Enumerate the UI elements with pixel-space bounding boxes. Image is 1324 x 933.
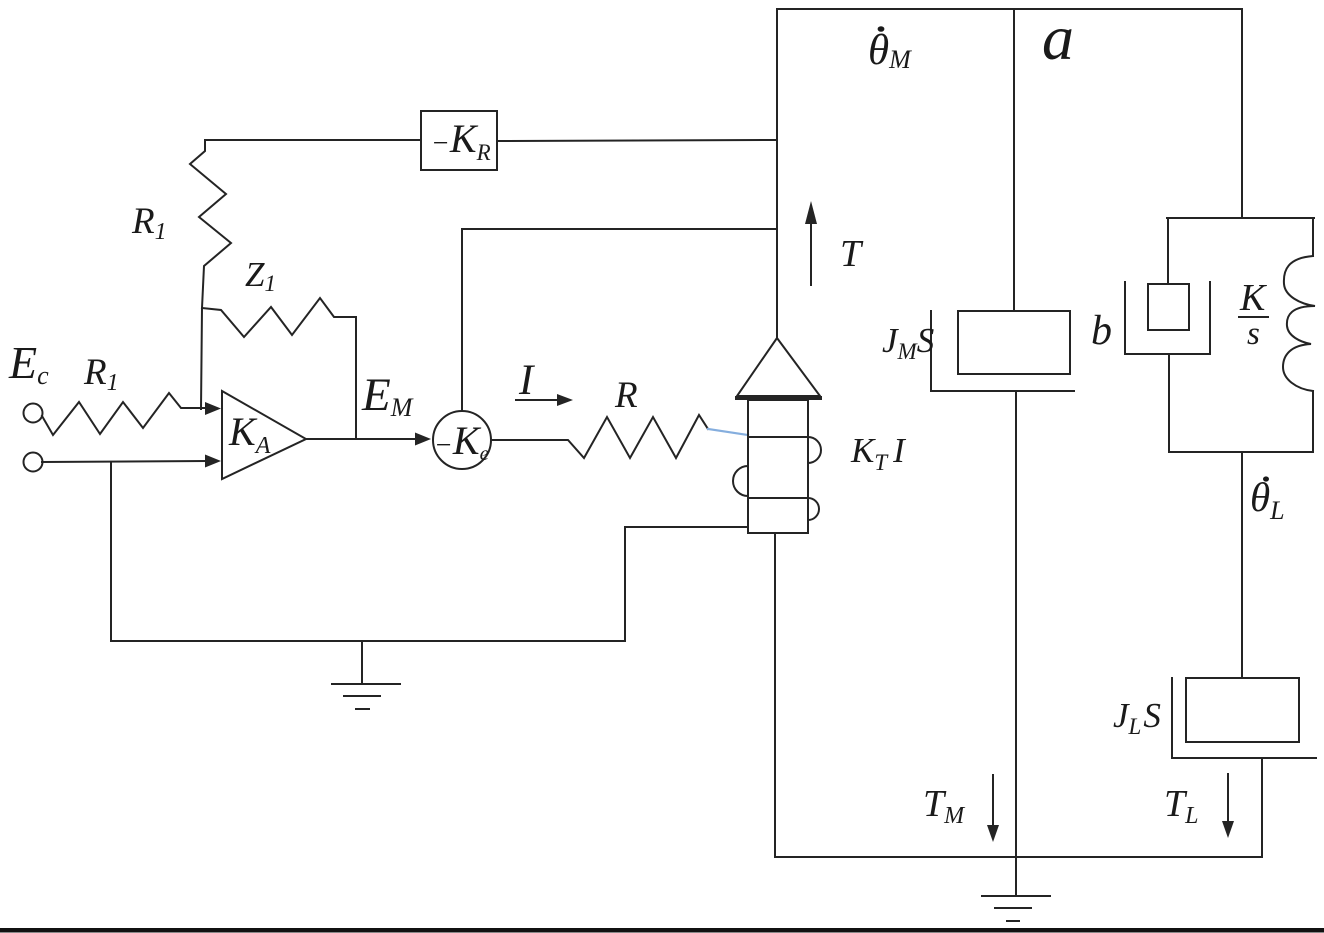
svg-text:b: b <box>1091 308 1112 354</box>
svg-text:I: I <box>518 357 535 404</box>
svg-text:a: a <box>1042 2 1074 73</box>
svg-text:T: T <box>840 233 864 275</box>
svg-text:s: s <box>1247 316 1260 352</box>
svg-text:R: R <box>614 375 638 416</box>
svg-text:K: K <box>1239 277 1267 319</box>
